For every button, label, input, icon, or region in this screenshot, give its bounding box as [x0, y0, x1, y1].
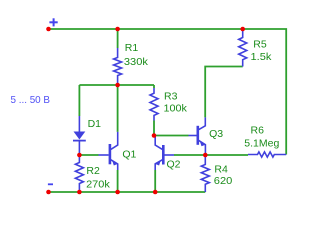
svg-text:R3: R3: [164, 91, 178, 103]
svg-text:620: 620: [214, 175, 233, 187]
svg-text:Q1: Q1: [122, 149, 136, 161]
transistor Q3: [189, 117, 206, 155]
transistor Q1: [99, 132, 118, 170]
wire Q1 emitter down segment: [117, 170, 119, 192]
svg-text:5.1Meg: 5.1Meg: [244, 138, 279, 150]
resistor R3: [150, 88, 158, 121]
svg-text:Q2: Q2: [167, 159, 181, 171]
wire R1 top lead connection: [117, 29, 119, 48]
svg-text:100k: 100k: [164, 102, 188, 114]
node D1 cathode / Q1 base: [77, 153, 82, 158]
svg-text:R5: R5: [253, 38, 267, 50]
plus terminal symbol: [49, 18, 57, 26]
svg-text:Q3: Q3: [209, 128, 223, 140]
wire top rail from + terminal to top-right corner and down right side: [49, 29, 287, 155]
resistor R1: [114, 48, 122, 85]
svg-text:R2: R2: [86, 165, 100, 177]
node R2 bottom: [77, 190, 82, 195]
node R3 bottom / Q2 collector / Q3 base: [152, 133, 157, 138]
node Q3 emitter / R4 / R6: [203, 153, 208, 158]
wire R3 bottom to node: [153, 121, 155, 136]
resistor R2: [75, 155, 83, 192]
transistor Q2: [155, 136, 174, 171]
node + terminal top left: [46, 27, 51, 32]
wire Q2 emitter down segment: [154, 170, 156, 192]
svg-text:R4: R4: [214, 164, 228, 176]
wire mid horizontal rail under R1: [79, 84, 154, 86]
svg-text:R1: R1: [125, 42, 139, 54]
node R5 top junction: [240, 27, 245, 32]
svg-text:D1: D1: [88, 118, 102, 130]
minus terminal symbol: [48, 183, 53, 185]
wire Q3 emitter net to R6 left lead: [205, 154, 248, 156]
node Q2 emitter bottom: [153, 190, 158, 195]
svg-text:5 ... 50 B: 5 ... 50 B: [11, 94, 51, 106]
wire R5 bottom jog down-left to Q3 collector: [205, 67, 243, 118]
svg-text:R6: R6: [251, 125, 265, 137]
wire D1 cathode to Q1 base node: [79, 154, 98, 156]
wire R1 junction down to Q1 collector: [117, 85, 119, 132]
wire R3 top from mid rail: [153, 85, 155, 88]
svg-text:330k: 330k: [124, 56, 149, 68]
resistor R4: [201, 155, 209, 192]
node Q1 emitter bottom: [115, 190, 120, 195]
svg-text:270k: 270k: [86, 178, 110, 190]
node - terminal bottom left: [46, 190, 51, 195]
resistor R6: [248, 152, 286, 157]
wire node to Q3 base: [154, 135, 189, 137]
wire bottom rail from - terminal to R4 bottom: [49, 191, 206, 193]
svg-text:1.5k: 1.5k: [251, 51, 273, 63]
node R1 bottom junction: [115, 83, 120, 88]
wire Q2 base to emitter net: [174, 154, 205, 156]
diode D1: [73, 116, 86, 155]
resistor R5: [239, 29, 247, 67]
wire left branch down to D1: [78, 85, 80, 116]
node R1 top junction: [115, 27, 120, 32]
